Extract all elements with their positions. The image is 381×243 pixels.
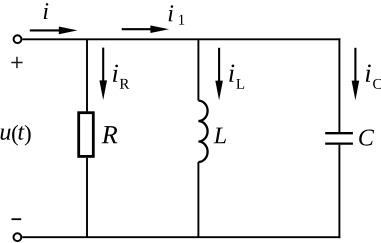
wire C branch lower [338, 145, 340, 238]
resistor R [79, 113, 94, 157]
terminal bottom-left (−) [14, 233, 22, 241]
current arrow iL [215, 48, 223, 100]
capacitor C plate top [325, 132, 353, 134]
label i1 [169, 5, 185, 24]
capacitor C plate bottom [325, 142, 353, 144]
wire top rail [22, 38, 340, 40]
inductor L [198, 101, 207, 162]
current arrow i [30, 27, 78, 35]
minus sign [12, 218, 22, 220]
wire R branch lower [86, 158, 88, 238]
label R [102, 126, 118, 143]
current arrow iR [99, 48, 107, 100]
wire L branch upper [197, 39, 199, 100]
label i [44, 3, 49, 19]
terminal top-left (+) [14, 35, 22, 43]
wire C branch upper [338, 38, 340, 132]
label C [359, 130, 374, 146]
label iL [229, 64, 244, 88]
label iC [366, 64, 381, 88]
current arrow i1 [122, 25, 169, 33]
label iR [113, 65, 129, 89]
plus sign [11, 57, 22, 68]
label u(t) [1, 125, 31, 146]
current arrow iC [352, 48, 360, 100]
wire L branch lower [197, 162, 199, 237]
wire bottom rail [22, 236, 340, 238]
label L [214, 128, 226, 144]
wire R branch upper [86, 39, 88, 111]
